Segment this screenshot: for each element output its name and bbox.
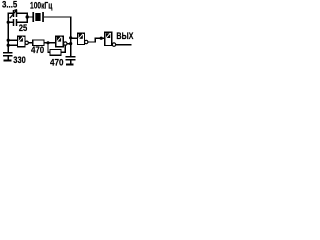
wire: vertical join of C1/C2 branches xyxy=(26,13,28,23)
wire: R2 right arm xyxy=(61,51,66,53)
wire: node B to crystal xyxy=(27,16,32,18)
crystal ZQ1 100kHz left plate xyxy=(32,12,34,22)
gate DD1.2 mark xyxy=(57,37,61,42)
junction dot before INV4 xyxy=(100,37,103,40)
capacitor C3 330 top plate xyxy=(3,52,13,54)
wire: INV1 input 2 xyxy=(8,44,18,46)
C3 stub xyxy=(8,57,9,60)
capacitor C2 25pF left plate xyxy=(13,19,15,26)
svg-text:330: 330 xyxy=(13,55,25,66)
resistor R1 470 xyxy=(33,40,44,45)
svg-text:3...5: 3...5 xyxy=(2,0,18,11)
capacitor C4 bottom plate xyxy=(65,59,75,61)
gate DD1.1 mark xyxy=(19,37,23,42)
junction dot INV1 input 1 xyxy=(7,39,10,42)
wire: INV1 output to R1 xyxy=(28,42,33,44)
wire: INV3 output xyxy=(88,41,96,43)
capacitor C1 trimmer 3...5 left plate xyxy=(13,10,15,17)
crystal ZQ1 body xyxy=(35,13,40,21)
wire: C2 to vertical join xyxy=(17,21,28,23)
junction dot node C / INV2 output xyxy=(69,42,72,45)
gate DD1.1 body xyxy=(18,36,25,47)
gate DD1.2 body xyxy=(56,36,63,47)
ground (right) xyxy=(66,63,74,65)
svg-text:100кГц: 100кГц xyxy=(30,0,52,11)
wire: trimmer to join column xyxy=(17,12,28,14)
wire: right column down xyxy=(70,16,72,56)
trimmer arrow xyxy=(10,11,16,18)
wire: INV2 output to node C xyxy=(67,43,71,45)
capacitor C2 25pF right plate xyxy=(16,19,18,26)
wire: crystal to right column xyxy=(44,16,72,18)
ground (left) xyxy=(4,59,12,61)
resistor R2 470 xyxy=(50,49,61,55)
C4 stub xyxy=(70,61,71,64)
wire: node C to INV3 input xyxy=(71,37,78,39)
trimmer arrow head xyxy=(14,9,18,12)
gate DD1.1 inversion circle xyxy=(25,41,28,44)
capacitor C3 330 bottom plate xyxy=(3,55,13,57)
wire: R2 right leg up xyxy=(64,45,66,53)
gate DD1.4 mark xyxy=(106,33,110,38)
wire: INV1 input 1 xyxy=(8,39,18,41)
wire: bottom branch from node A xyxy=(8,21,13,23)
junction dot node A / C2 xyxy=(7,21,10,24)
svg-text:25: 25 xyxy=(19,23,28,34)
gate DD1.3 body xyxy=(77,33,84,44)
wire: top branch to trimmer xyxy=(8,12,13,14)
capacitor C1 trimmer 3...5 right plate xyxy=(16,10,18,17)
wire: R2 left leg down xyxy=(47,43,49,52)
crystal ZQ1 right plate xyxy=(42,12,44,22)
node A: left column wire xyxy=(7,13,9,53)
wire: R1 to INV2 input xyxy=(44,42,56,44)
gate DD1.3 inversion circle xyxy=(85,40,88,43)
wire: jog up to INV4 level xyxy=(94,38,96,43)
wire: R2 left arm xyxy=(47,51,50,53)
gate DD1.2 inversion circle xyxy=(64,42,67,45)
svg-text:470: 470 xyxy=(31,45,44,56)
gate DD1.4 body xyxy=(105,32,112,45)
wire: to INV4 input xyxy=(95,37,105,39)
junction dot node C / INV3 input xyxy=(69,36,72,39)
wire: INV4 output to terminal xyxy=(116,44,132,46)
svg-text:470: 470 xyxy=(50,58,64,69)
gate DD1.3 mark xyxy=(79,34,83,39)
gate DD1.4 inversion circle xyxy=(112,43,115,46)
junction dot node B / crystal xyxy=(26,15,29,18)
svg-text:ВЫХ: ВЫХ xyxy=(116,31,133,42)
capacitor C4 top plate xyxy=(65,56,75,58)
junction dot INV1 input 2 xyxy=(7,44,10,47)
junction dot R1/R2/INV2 node xyxy=(46,41,49,44)
